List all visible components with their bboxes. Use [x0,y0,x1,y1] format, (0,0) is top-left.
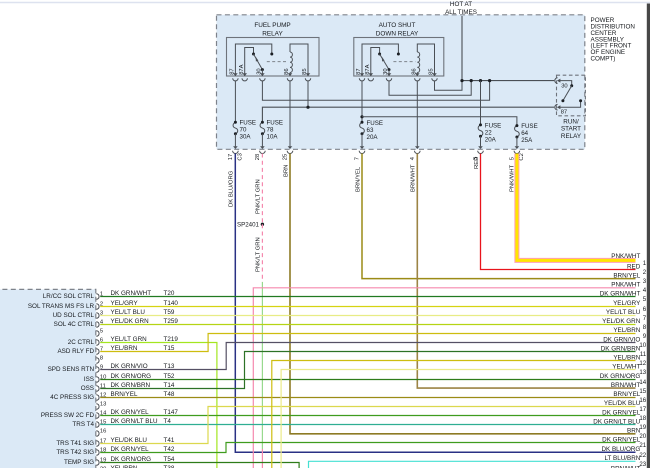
svg-text:87A: 87A [365,64,371,74]
svg-text:2C CTRL: 2C CTRL [68,339,95,346]
svg-text:25A: 25A [521,137,533,144]
svg-text:15: 15 [639,388,646,395]
svg-text:ASD RLY FD: ASD RLY FD [57,348,94,355]
wire PNK/LT GRN lower green section [261,282,263,449]
svg-text:PNK/LT GRN: PNK/LT GRN [256,237,262,272]
wire DK BLU/ORG from fuse 70 [235,154,635,453]
bus node fuse22 tap [479,79,482,82]
svg-text:PNK/LT GRN: PNK/LT GRN [256,179,262,214]
svg-text:RED: RED [627,263,641,270]
svg-text:YEL/BRN: YEL/BRN [613,327,640,334]
wire fuse22 to connector [480,136,482,146]
svg-text:YEL/DK GRN: YEL/DK GRN [602,318,641,325]
relay K2 pin terminal x=434.5 [432,73,437,81]
svg-text:FUSE: FUSE [367,120,384,127]
wire YEL/BRN row 12 from below [272,361,636,468]
wire fuse78 to connector [261,134,263,147]
wire PNK/WHT row 4 [253,288,635,468]
relay K1 pin terminal x=290 [287,73,292,81]
wire relay K1 pin 30 to bus [262,81,489,101]
fuse F64 value label [521,123,538,144]
wire YEL/DK GRN pin4 to row 8 [100,324,635,326]
svg-text:LT BLU/BRN: LT BLU/BRN [604,455,640,462]
connector C1 pin 10 socket [96,377,99,383]
bus node K2-85 [470,79,473,82]
fuse F22 [478,125,483,136]
wire DK GRN/ORG pin10 to row 14 [100,379,635,381]
connector C1 pin 6 socket [96,340,99,346]
svg-text:DK GRN/BRN: DK GRN/BRN [601,345,641,352]
wire BRN from relay K1 pin 86 [290,154,636,434]
svg-text:4C PRESS SIG: 4C PRESS SIG [50,394,94,401]
wire hot feed vertical [461,16,463,81]
fuel pump relay label [254,22,290,37]
relay K2 contact 87A node [378,53,381,56]
PDC connector exit pin 7 [359,146,365,153]
wire PNK/LT GRN below splice dashed [261,224,263,282]
hot bus B+ [462,80,554,82]
bus node hot feed [460,79,463,82]
connector C1 pin 3 socket [96,313,99,319]
wire YEL/LT BLU pin3 to row 7 [100,315,635,317]
relay K1 contact 87A node [252,53,255,56]
svg-text:FUSE: FUSE [240,120,257,127]
svg-text:PNK/WHT: PNK/WHT [611,253,640,260]
svg-text:16: 16 [100,428,106,434]
wire YEL/LT GRN pin6 down [100,343,217,468]
run-start relay arm node [561,99,564,102]
svg-text:YEL/LT BLU: YEL/LT BLU [606,309,641,316]
svg-text:PRESS SW 2C FD: PRESS SW 2C FD [41,412,95,419]
svg-text:20A: 20A [367,134,379,141]
connector C1 pin 19 socket [96,460,99,466]
PDC connector exit pin 3 [478,146,484,153]
svg-text:25: 25 [283,154,289,160]
relay K1 pin 30 node [261,68,264,71]
svg-text:YEL/DK BLU: YEL/DK BLU [604,400,641,407]
svg-text:23: 23 [639,461,646,468]
relay K1 contact 87 node [270,53,273,56]
wire fuse78 / K1-85 feed to run-start 87 [262,107,554,122]
svg-text:SP2401: SP2401 [237,222,260,229]
splice SP2401 [261,223,264,226]
svg-text:BRN/WHT: BRN/WHT [411,164,417,192]
connector C1 pin 4 socket [96,322,99,328]
wire YEL/WHT row 13 from below [281,370,635,468]
relay K1 pin terminal x=235.4 [233,73,238,81]
svg-text:30: 30 [561,83,567,89]
relay K2 pin terminal x=417.3 [415,73,420,81]
svg-text:FUSE: FUSE [485,122,502,129]
wire DK GRN/WHT pin1 to row 5 [100,296,635,298]
connector C1 pin 11 socket [96,386,99,392]
wire PNK/WHT thick core [517,154,636,261]
svg-text:YEL/GRY: YEL/GRY [613,300,641,307]
run-start relay contact 87 node [579,99,582,102]
svg-text:ISS: ISS [84,376,94,383]
wire DK GRN/YEL pin18 jog to row 21 [100,443,635,453]
connector C1 pin 13 socket [96,404,99,410]
run-start relay box [557,75,586,116]
svg-text:22: 22 [485,129,492,136]
PDC connector exit pin 4 [415,146,421,153]
svg-text:18: 18 [639,415,646,422]
wire DK GRN/ORG pin19 down [100,463,299,468]
svg-text:21: 21 [639,442,646,449]
svg-text:13: 13 [100,401,106,407]
relay K2 pin terminal x=370.8 [368,73,373,81]
PDC connector exit pin 28 [260,146,266,153]
relay K2 coil to pin 85 [417,44,434,76]
svg-text:FUSE: FUSE [521,123,538,130]
svg-text:DK GRN/YEL: DK GRN/YEL [602,437,641,444]
relay K1 box [227,38,320,77]
svg-text:DK GRN/YEL: DK GRN/YEL [602,409,641,416]
svg-text:20: 20 [639,433,646,440]
relay K1 pin terminal x=262.4 [260,73,265,81]
connector C1 pin 1 socket [96,294,99,300]
wire BRN/WHT from relay K2 pin 86 [417,154,635,389]
svg-text:13: 13 [639,369,646,376]
fuse F63 value label [367,120,384,141]
transmission connector box [0,289,96,468]
svg-text:28: 28 [255,154,261,160]
svg-text:87: 87 [561,109,567,115]
svg-text:70: 70 [240,127,247,134]
power distribution center box [217,15,585,150]
svg-text:TRS T41 SIG: TRS T41 SIG [56,440,94,447]
connector C1 pin 12 socket [96,395,99,401]
run-start relay pin 30 socket [555,78,561,84]
relay K2 coil [417,52,419,73]
svg-text:8: 8 [100,355,103,361]
svg-text:LR/CC SOL CTRL: LR/CC SOL CTRL [43,293,95,300]
relay K1 pin 30 lead [261,70,263,76]
PDC connector exit pin 17 [233,146,239,153]
svg-text:63: 63 [367,127,374,134]
svg-text:14: 14 [639,379,646,386]
svg-text:C3: C3 [237,153,243,160]
connector C1 pin 9 socket [96,367,99,373]
relay K2 pin 30 node [388,68,391,71]
wire RED from fuse 22 [481,154,636,270]
relay K2 pin 87 branch [362,44,398,76]
svg-text:TEMP SIG: TEMP SIG [64,459,94,466]
wire relay K1 pin 87 to fuse 70 [234,81,236,122]
wire fuse70 to connector [234,134,236,147]
svg-text:DK BLU/ORG: DK BLU/ORG [601,446,640,453]
relay K2 pin terminal x=362 [359,73,364,81]
svg-text:TRS T42 SIG: TRS T42 SIG [56,449,94,456]
wire YEL/DK BLU pin17 jog to row 17 [100,407,635,444]
wire relay K2 pin 86 drop [416,81,418,146]
wire YEL/GRY pin2 to row 6 [100,306,635,308]
wire BRN/YEL pin12 to row 16 [100,397,635,399]
wire DK GRN/YEL pin14 to row 18 [100,415,635,417]
relay K1 switch arm arrowhead [256,57,259,62]
fuse F78 [260,122,265,134]
svg-text:RED: RED [474,157,480,169]
wire LT BLU/BRN row 23 from below [309,461,636,468]
right scrollbar [647,4,650,468]
fuse F70 value label [240,120,257,141]
wire DK GRN/LT BLU pin15 to row 19 [100,424,635,426]
label HOT AT ALL TIMES [445,1,477,16]
svg-text:RUN/: RUN/ [563,119,579,126]
wire DK GRN/VIO pin9 jog to row 10 [100,343,635,370]
connector C1 pin 8 socket [96,358,99,364]
run-start relay switch arm [563,86,572,101]
svg-text:17: 17 [228,154,234,160]
relay K1 pin 87 branch [235,44,271,76]
relay K1 coil [290,52,292,73]
svg-text:HOT AT: HOT AT [450,1,472,8]
svg-text:10: 10 [639,342,646,349]
wire relay K2 pin 87 to fuse 63 [361,81,363,122]
fuse F63 [360,122,365,134]
wire PNK/LT GRN bottom pink section [261,449,263,468]
node fuse63/fuse64 tap [360,115,363,118]
relay K2 pin 86 lead [416,73,418,77]
connector C1 pin 14 socket [96,413,99,419]
svg-text:DK GRN/ORG: DK GRN/ORG [600,373,641,380]
svg-text:BRN/WHT: BRN/WHT [611,382,641,389]
relay K2 contact 87 node [397,53,400,56]
svg-text:22: 22 [639,452,646,459]
top toolbar hairline [0,2,650,4]
relay K1 switch arm [254,54,263,70]
svg-text:11: 11 [640,351,647,358]
run-start relay label [561,119,582,140]
svg-text:PNK/WHT: PNK/WHT [509,164,515,192]
svg-text:YEL/BRN: YEL/BRN [613,355,640,362]
fuse F70 [233,122,238,134]
svg-text:OSS: OSS [81,385,94,392]
svg-text:30A: 30A [240,134,252,141]
wire fuse64 to connector [516,137,518,146]
wire BRN/YEL from fuse 63 [362,154,636,279]
relay K2 switch arm [380,54,389,70]
connector C1 pin 5 socket [96,331,99,337]
wire PNK/WHT thick outline from fuse 64 [517,154,636,261]
relay K1 pin terminal x=308 [305,73,310,81]
wire YEL/BRN pin7 jog to row 9 [100,334,635,352]
connector C1 pin 16 socket [96,431,99,437]
node K1-85 on feed [306,106,309,109]
relay K2 mechanical link [393,61,415,63]
svg-text:RELAY: RELAY [262,30,283,37]
wire fuse63 to connector [361,134,363,147]
relay K2 pin 30 lead [388,70,390,76]
run-start relay pin 87 socket [555,104,561,110]
svg-text:AUTO SHUT: AUTO SHUT [379,22,416,29]
wire PNK/LT GRN from fuse 78 upper dashed [261,154,263,225]
connector C1 pin 2 socket [96,304,99,310]
relay K2 pin 87A branch [371,48,380,77]
svg-text:BRN: BRN [283,165,289,177]
svg-text:SOL 4C CTRL: SOL 4C CTRL [54,321,95,328]
relay K1 pin 86 lead [289,73,291,77]
PDC connector exit pin 5 [514,146,520,153]
run-start relay pin 30 lead [558,81,572,85]
svg-text:PNK/WHT: PNK/WHT [611,282,640,289]
svg-text:FUSE: FUSE [267,120,284,127]
svg-text:BRN/YEL: BRN/YEL [613,391,640,398]
relay K1 pin 87A branch [245,48,254,77]
wire relay K2 pin 30 to bus [389,81,471,96]
connector C1 pin 7 socket [96,349,99,355]
svg-text:5: 5 [100,328,103,334]
svg-text:DK GRN/LT BLU: DK GRN/LT BLU [593,418,640,425]
svg-text:19: 19 [639,424,646,431]
svg-text:TRS T4: TRS T4 [72,421,94,428]
wire relay K1 pin 85 drop [307,81,309,107]
auto shut down relay label [376,22,419,37]
connector C1 pin 15 socket [96,422,99,428]
fuse F22 value label [485,122,502,143]
svg-text:DK GRN/VIO: DK GRN/VIO [603,336,640,343]
svg-text:UD SOL CTRL: UD SOL CTRL [53,312,95,319]
wire relay K2 pin 85 to bus [435,81,463,91]
svg-text:C2: C2 [519,153,525,160]
PDC connector exit pin 25 [287,146,293,153]
relay K2 switch arm arrowhead [382,57,385,62]
relay K1 coil to pin 85 [290,44,308,76]
svg-text:12: 12 [639,360,646,367]
svg-text:SOL TRANS MS FS LR: SOL TRANS MS FS LR [28,303,95,310]
svg-text:7: 7 [355,157,361,160]
svg-text:ALL TIMES: ALL TIMES [445,9,477,16]
svg-text:DK BLU/ORG: DK BLU/ORG [229,170,235,207]
svg-text:BRN/YEL: BRN/YEL [355,166,361,192]
svg-text:17: 17 [639,406,646,413]
wire DK GRN/BRN pin11 jog to row 11 [100,352,635,389]
svg-text:RELAY: RELAY [561,133,582,140]
svg-text:64: 64 [521,130,528,137]
relay K2 pin terminal x=389 [386,73,391,81]
svg-text:87A: 87A [239,64,245,74]
svg-text:YEL/WHT: YEL/WHT [612,364,640,371]
run-start relay contact 30 node [570,84,573,87]
svg-text:10A: 10A [267,134,279,141]
run-start relay pin 87 lead [558,102,580,108]
connector C1 pin 18 socket [96,450,99,456]
svg-text:START: START [561,126,581,133]
svg-text:20A: 20A [485,136,497,143]
svg-text:DOWN RELAY: DOWN RELAY [376,30,419,37]
wire tap to fuse 64 [362,117,517,126]
wire relay K1 pin 86 drop [289,81,291,146]
svg-text:COMPT): COMPT) [591,56,616,63]
svg-text:BRN/YEL: BRN/YEL [613,272,640,279]
relay K1 mechanical link [267,61,288,63]
relay K1 pin terminal x=244.7 [242,73,247,81]
svg-text:78: 78 [267,127,274,134]
relay K2 box [354,38,444,77]
fuse F78 value label [267,120,284,141]
svg-text:FUEL PUMP: FUEL PUMP [254,22,290,29]
svg-text:16: 16 [639,397,646,404]
wire bus tap to fuse 22 [480,81,482,125]
label POWER DISTRIBUTION CENTER ASSEMBLY [591,17,636,62]
bus node K1-30 [488,79,491,82]
svg-text:DK GRN/WHT: DK GRN/WHT [600,291,641,298]
fuse F64 [515,126,520,137]
connector C1 pin 17 socket [96,441,99,447]
svg-text:SPD SENS RTN: SPD SENS RTN [48,366,95,373]
